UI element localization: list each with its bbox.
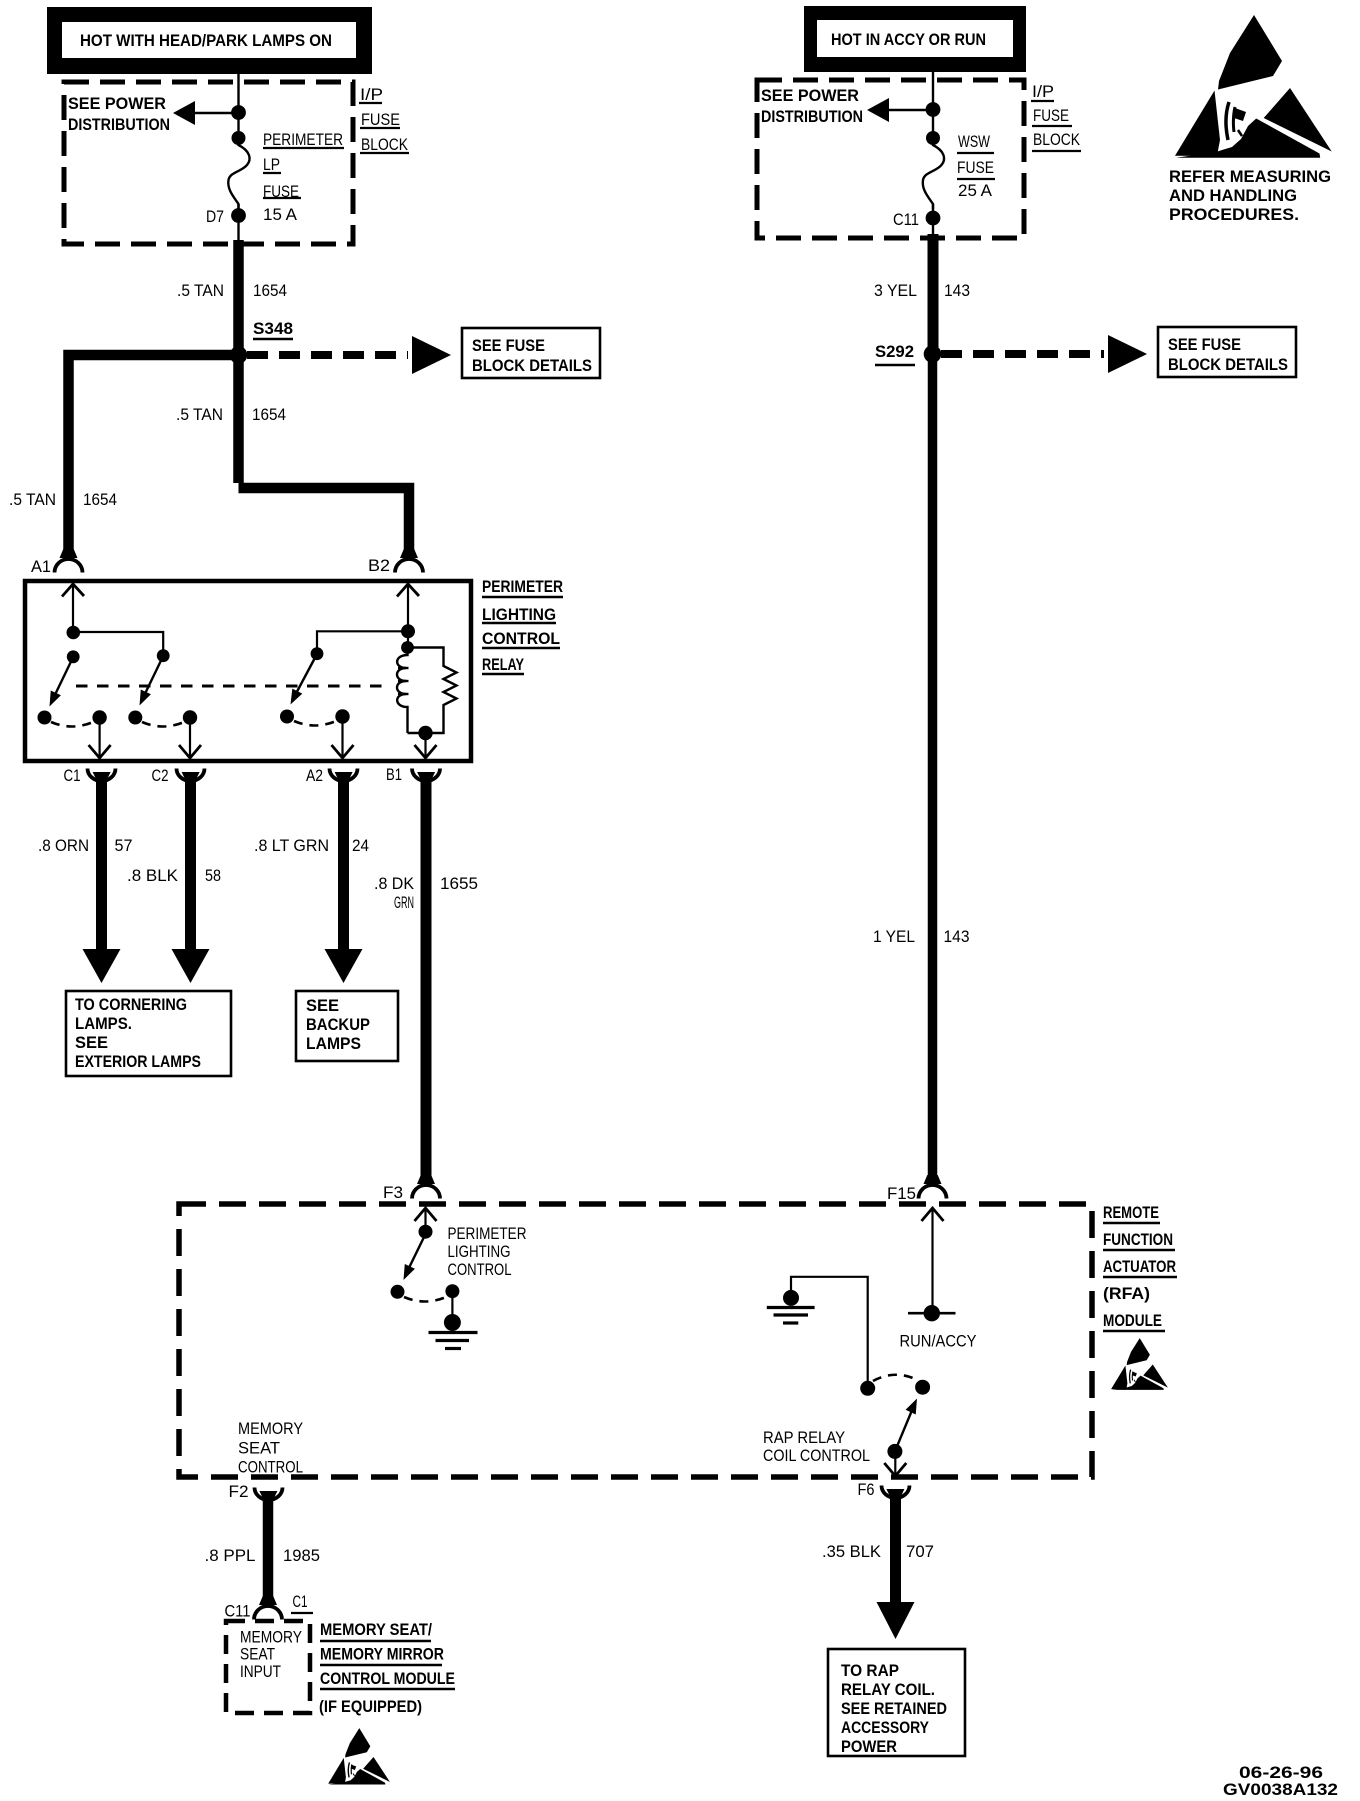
relay switch 3 left contact dot	[280, 710, 294, 724]
svg-text:25 A: 25 A	[958, 181, 993, 200]
node: junction dot 1 (right)	[926, 102, 941, 117]
relay switch 3 dashed contact arc	[294, 721, 336, 726]
svg-text:RAP RELAY: RAP RELAY	[763, 1428, 845, 1447]
relay switch 1 arm with arrowhead	[51, 657, 73, 703]
svg-text:.5 TAN: .5 TAN	[9, 490, 56, 509]
relay coil (inductor)	[397, 648, 408, 734]
relay internal: B2 input arrow and stem	[397, 584, 419, 626]
wire: horizontal link to switch 2	[73, 632, 163, 650]
svg-text:SEE FUSE: SEE FUSE	[472, 336, 545, 355]
relay C1 output stem and arrow	[98, 720, 100, 756]
svg-text:.8 ORN: .8 ORN	[38, 836, 89, 855]
svg-text:POWER: POWER	[841, 1737, 897, 1756]
relay switch 3 arm with arrowhead	[292, 654, 317, 701]
relay mechanical dashed link line	[76, 685, 388, 688]
node: relay dot on B2 stem	[401, 624, 415, 638]
svg-text:B2: B2	[368, 556, 390, 575]
svg-text:.5 TAN: .5 TAN	[177, 281, 224, 300]
wire 1 YEL 143 (S292 down to F15)	[928, 354, 938, 1184]
svg-text:.8 DK: .8 DK	[374, 874, 415, 893]
svg-text:TO RAP: TO RAP	[841, 1661, 899, 1680]
relay switch 2 dashed contact arc	[142, 722, 184, 727]
svg-text:I/P: I/P	[1032, 82, 1054, 101]
svg-text:1655: 1655	[440, 874, 478, 893]
svg-text:SEE RETAINED: SEE RETAINED	[841, 1699, 947, 1718]
relay internal: A1 input arrow and stem	[62, 584, 84, 626]
svg-text:C1: C1	[293, 1592, 308, 1611]
svg-text:15 A: 15 A	[263, 205, 298, 224]
svg-text:F3: F3	[383, 1183, 403, 1202]
svg-text:.35 BLK: .35 BLK	[822, 1542, 882, 1561]
wire .8 BLK 58 (C2 down) with arrow	[185, 779, 196, 950]
wire .8 ORN 57 (C1 down) with arrow	[96, 779, 107, 950]
RFA internal: F3 arrow and stem	[415, 1208, 437, 1221]
svg-text:A2: A2	[306, 766, 323, 785]
label SEE POWER DISTRIBUTION (left)	[68, 94, 170, 134]
label MEMORY SEAT INPUT	[240, 1628, 302, 1682]
wire .5 TAN 1654 (D7 to S348)	[233, 240, 244, 355]
power feed box: HOT WITH HEAD/PARK LAMPS ON	[47, 7, 372, 74]
svg-text:CONTROL MODULE: CONTROL MODULE	[320, 1669, 455, 1688]
dashed arrow S348 to fuse block details	[247, 351, 408, 359]
perimeter lighting control right contact dot	[445, 1284, 459, 1298]
svg-text:ACCESSORY: ACCESSORY	[841, 1718, 930, 1737]
relay switch 1 dashed contact arc	[51, 722, 93, 727]
svg-text:707: 707	[906, 1542, 934, 1561]
arrow to see power distribution (right)	[867, 98, 933, 122]
relay switch 3 feed from B2	[317, 631, 408, 648]
wire: vertical feed inside left fuse block	[237, 74, 239, 146]
svg-text:24: 24	[352, 836, 369, 855]
memory seat input dashed box	[226, 1621, 310, 1713]
RUN/ACCY contact bar and dot	[908, 1312, 956, 1315]
svg-text:BACKUP: BACKUP	[306, 1015, 370, 1034]
wire .8 PPL 1985 (F2 to C11)	[263, 1498, 274, 1605]
svg-text:SEAT: SEAT	[240, 1645, 275, 1664]
RAP switch right contact dot	[915, 1380, 930, 1395]
svg-text:D7: D7	[206, 207, 224, 226]
svg-text:(RFA): (RFA)	[1103, 1284, 1150, 1303]
RAP switch pivot dot	[887, 1444, 902, 1459]
relay switch 3 pivot dot	[311, 647, 324, 660]
label PERIMETER LIGHTING CONTROL	[448, 1224, 527, 1279]
svg-text:(IF EQUIPPED): (IF EQUIPPED)	[319, 1697, 422, 1716]
relay C2 output stem and arrow	[189, 720, 191, 756]
I/P fuse block (left) dashed box	[64, 82, 353, 244]
relay B1 output stem and arrow	[424, 735, 426, 756]
svg-text:143: 143	[944, 927, 970, 946]
svg-text:FUNCTION: FUNCTION	[1103, 1230, 1173, 1249]
svg-text:CONTROL: CONTROL	[238, 1458, 303, 1477]
label PERIMETER LP FUSE 15 A	[263, 130, 344, 224]
svg-text:I/P: I/P	[360, 85, 383, 104]
label WSW FUSE 25 A	[957, 132, 995, 200]
ESD warning symbol (below memory seat)	[328, 1728, 390, 1784]
svg-text:INPUT: INPUT	[240, 1662, 281, 1681]
node: junction dot 2	[232, 131, 246, 145]
svg-text:143: 143	[944, 281, 970, 300]
svg-text:BLOCK: BLOCK	[361, 135, 409, 154]
wire .5 TAN 1654 (S348 left branch to A1)	[69, 355, 239, 558]
label SEE POWER DISTRIBUTION (right)	[761, 86, 863, 126]
perimeter lighting control dashed arc	[404, 1297, 446, 1302]
svg-text:WSW: WSW	[958, 132, 990, 151]
svg-text:SEAT: SEAT	[238, 1439, 280, 1458]
wire .35 BLK 707 (F6 down) with arrow	[890, 1496, 901, 1603]
svg-text:S348: S348	[253, 319, 293, 338]
svg-text:B1: B1	[386, 765, 402, 784]
svg-text:.8 LT GRN: .8 LT GRN	[254, 836, 329, 855]
svg-text:SEE POWER: SEE POWER	[68, 94, 166, 113]
svg-text:COIL CONTROL: COIL CONTROL	[763, 1446, 870, 1465]
svg-text:3 YEL: 3 YEL	[874, 281, 917, 300]
I/P fuse block (right) dashed box	[757, 80, 1024, 238]
svg-text:ACTUATOR: ACTUATOR	[1103, 1257, 1176, 1276]
RAP switch dashed arc	[873, 1375, 918, 1381]
label RAP RELAY COIL CONTROL	[763, 1428, 870, 1465]
ground stem inside RFA (left)	[451, 1294, 453, 1318]
pin C11 (dot)	[926, 211, 941, 226]
wire: vertical feed inside right fuse block	[932, 72, 934, 146]
svg-text:1654: 1654	[253, 281, 287, 300]
relay switch 3 output contact dot (A2)	[335, 709, 349, 723]
RAP output stem and arrow to F6	[894, 1454, 896, 1474]
svg-text:SEE FUSE: SEE FUSE	[1168, 335, 1241, 354]
svg-text:.5 TAN: .5 TAN	[176, 405, 223, 424]
svg-text:EXTERIOR LAMPS: EXTERIOR LAMPS	[75, 1052, 201, 1071]
svg-text:RELAY COIL.: RELAY COIL.	[841, 1680, 935, 1699]
relay switch 1 pivot dot	[67, 650, 80, 663]
svg-text:HOT IN ACCY OR RUN: HOT IN ACCY OR RUN	[831, 30, 986, 49]
box SEE FUSE BLOCK DETAILS (right)	[1158, 327, 1296, 377]
perimeter lighting control switch arm	[405, 1234, 426, 1276]
relay switch 2 pivot dot	[157, 649, 170, 662]
dashed arrow S292 to fuse block details	[941, 350, 1104, 358]
svg-text:REFER MEASURING: REFER MEASURING	[1169, 167, 1331, 186]
RAP switch left contact dot	[860, 1381, 875, 1396]
RFA module dashed box	[179, 1204, 1092, 1477]
RAP switch arm with arrowhead (points up-right)	[895, 1403, 915, 1451]
svg-text:PERIMETER: PERIMETER	[482, 577, 563, 596]
svg-text:58: 58	[205, 866, 221, 885]
relay switch 2 output contact dot (C2)	[183, 710, 197, 724]
ground symbol (left, inside RFA)	[429, 1333, 478, 1349]
svg-text:57: 57	[115, 836, 133, 855]
pin D7 (dot)	[231, 208, 246, 223]
svg-text:C2: C2	[152, 766, 169, 785]
date and drawing code	[1223, 1763, 1338, 1799]
svg-text:.8 BLK: .8 BLK	[127, 866, 179, 885]
svg-text:HOT WITH HEAD/PARK LAMPS ON: HOT WITH HEAD/PARK LAMPS ON	[80, 31, 332, 50]
relay switch 2 left contact dot	[128, 711, 142, 725]
relay switch 1 left contact dot	[38, 711, 52, 725]
wire 3 YEL 143 (C11 to S292)	[928, 234, 939, 353]
perimeter lighting control left contact dot	[391, 1285, 405, 1299]
svg-text:DISTRIBUTION: DISTRIBUTION	[761, 107, 863, 126]
box TO RAP RELAY COIL. SEE RETAINED ACCESSORY POWER	[828, 1649, 965, 1756]
wire .5 TAN 1654 (S348 down to elbow, to B2)	[233, 355, 244, 483]
svg-text:RELAY: RELAY	[482, 655, 524, 674]
label PERIMETER LIGHTING CONTROL RELAY	[482, 577, 563, 674]
relay switch 1 output contact dot (C1)	[92, 710, 106, 724]
svg-text:BLOCK: BLOCK	[1033, 130, 1081, 149]
perimeter lighting control switch top dot	[419, 1225, 433, 1239]
svg-text:GRN: GRN	[394, 893, 414, 912]
box SEE FUSE BLOCK DETAILS (left)	[462, 328, 600, 378]
svg-text:FUSE: FUSE	[957, 158, 994, 177]
svg-text:C11: C11	[225, 1602, 251, 1621]
fuse: WSW FUSE 25 A (wavy element)	[923, 145, 944, 209]
svg-text:S292: S292	[875, 342, 914, 361]
svg-text:1 YEL: 1 YEL	[873, 927, 915, 946]
svg-text:TO CORNERING: TO CORNERING	[75, 995, 187, 1014]
relay A2 output stem and arrow	[341, 720, 343, 756]
box TO CORNERING LAMPS. SEE EXTERIOR LAMPS	[66, 991, 231, 1076]
svg-text:FUSE: FUSE	[361, 110, 400, 129]
svg-text:MEMORY SEAT/: MEMORY SEAT/	[320, 1620, 432, 1639]
svg-text:BLOCK DETAILS: BLOCK DETAILS	[1168, 355, 1288, 374]
svg-text:C11: C11	[893, 210, 919, 229]
svg-text:MODULE: MODULE	[1103, 1311, 1162, 1330]
svg-text:LIGHTING: LIGHTING	[448, 1242, 511, 1261]
box SEE BACKUP LAMPS	[296, 991, 398, 1061]
label I/P FUSE BLOCK (left)	[359, 85, 409, 154]
wire .8 LT GRN 24 (A2 down) with arrow	[338, 779, 349, 950]
ground dot (RAP)	[783, 1290, 799, 1306]
svg-text:1654: 1654	[252, 405, 286, 424]
arrow to see power distribution (left)	[173, 101, 238, 125]
svg-text:BLOCK DETAILS: BLOCK DETAILS	[472, 356, 592, 375]
svg-text:REMOTE: REMOTE	[1103, 1203, 1159, 1222]
label MEMORY SEAT CONTROL	[238, 1419, 303, 1477]
svg-text:F15: F15	[887, 1184, 916, 1203]
svg-text:A1: A1	[31, 557, 51, 576]
svg-text:LAMPS: LAMPS	[306, 1034, 361, 1053]
ESD warning symbol (inside RFA)	[1111, 1338, 1168, 1390]
node: coil top dot	[401, 641, 414, 654]
svg-text:1654: 1654	[83, 490, 117, 509]
svg-text:RUN/ACCY: RUN/ACCY	[900, 1332, 977, 1351]
wire .8 DK GRN 1655 (B1 down to F3)	[421, 779, 432, 1184]
svg-text:MEMORY MIRROR: MEMORY MIRROR	[320, 1645, 444, 1664]
svg-text:GV0038A132: GV0038A132	[1223, 1780, 1338, 1796]
svg-text:FUSE: FUSE	[1033, 106, 1069, 125]
node: relay dot on A1 stem	[67, 626, 81, 640]
power feed box: HOT IN ACCY OR RUN	[804, 6, 1026, 72]
svg-text:SEE POWER: SEE POWER	[761, 86, 859, 105]
node: coil bottom dot (B1)	[418, 726, 432, 740]
svg-text:C1: C1	[64, 766, 81, 785]
svg-text:F2: F2	[229, 1482, 249, 1501]
label I/P FUSE BLOCK (right)	[1031, 82, 1081, 151]
label MEMORY SEAT/ MEMORY MIRROR CONTROL MODULE (IF EQUIPPED)	[319, 1620, 455, 1716]
svg-text:CONTROL: CONTROL	[482, 629, 560, 648]
relay switch 2 arm with arrowhead	[141, 656, 163, 702]
svg-text:F6: F6	[858, 1480, 875, 1499]
svg-text:DISTRIBUTION: DISTRIBUTION	[68, 115, 170, 134]
fuse: PERIMETER LP FUSE 15 A (wavy element)	[228, 145, 249, 209]
relay box: PERIMETER LIGHTING CONTROL RELAY	[25, 581, 471, 761]
svg-text:LAMPS.: LAMPS.	[75, 1014, 132, 1033]
svg-text:1985: 1985	[283, 1546, 320, 1565]
svg-text:PERIMETER: PERIMETER	[263, 130, 343, 149]
wire from ground to RAP switch left contact	[791, 1277, 868, 1384]
svg-text:LP: LP	[263, 155, 280, 174]
label REFER MEASURING AND HANDLING PROCEDURES.	[1169, 167, 1331, 224]
svg-text:PERIMETER: PERIMETER	[448, 1224, 527, 1243]
svg-text:.8 PPL: .8 PPL	[205, 1546, 256, 1565]
ESD warning symbol (top right)	[1175, 15, 1332, 158]
svg-text:SEE: SEE	[75, 1033, 108, 1052]
node: junction dot 1	[231, 105, 246, 120]
svg-text:SEE: SEE	[306, 996, 339, 1015]
svg-text:AND HANDLING: AND HANDLING	[1169, 186, 1297, 205]
node: junction dot 2 (right)	[926, 131, 940, 145]
label REMOTE FUNCTION ACTUATOR (RFA) MODULE	[1103, 1203, 1177, 1331]
svg-text:LIGHTING: LIGHTING	[482, 605, 556, 624]
svg-text:CONTROL: CONTROL	[448, 1260, 512, 1279]
svg-text:MEMORY: MEMORY	[238, 1419, 303, 1438]
ground symbol (RAP relay branch)	[767, 1308, 815, 1324]
svg-text:PROCEDURES.: PROCEDURES.	[1169, 205, 1299, 224]
relay resistor (parallel with coil)	[408, 648, 457, 734]
RFA internal: F15 arrow and stem to RUN/ACCY	[922, 1208, 944, 1221]
